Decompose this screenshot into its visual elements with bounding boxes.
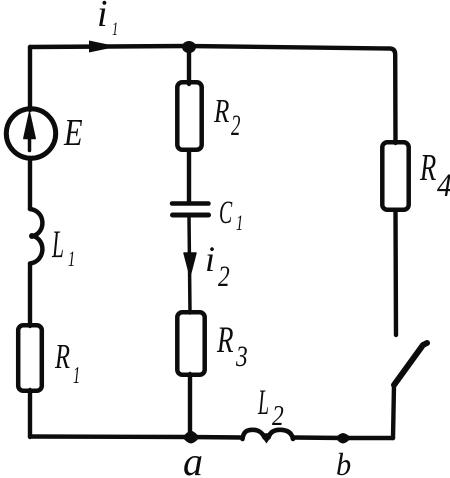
svg-text:1: 1 xyxy=(112,20,118,40)
wire bottom left xyxy=(30,437,242,438)
wire switch fixed contact xyxy=(393,211,398,335)
svg-text:2: 2 xyxy=(231,110,240,142)
inductor L1 xyxy=(30,209,42,264)
wire right riser to switch xyxy=(393,385,394,438)
svg-text:C: C xyxy=(219,194,233,230)
source E xyxy=(6,109,55,158)
capacitor C1 xyxy=(172,201,209,206)
svg-text:R: R xyxy=(216,320,234,361)
svg-text:2: 2 xyxy=(218,259,230,292)
node a xyxy=(183,431,200,444)
svg-text:1: 1 xyxy=(68,247,75,272)
svg-text:4: 4 xyxy=(437,167,450,204)
switch blade xyxy=(394,343,427,385)
node junction top xyxy=(182,41,196,53)
wire R3 to node a xyxy=(188,374,192,437)
wire top horizontal xyxy=(30,46,396,143)
wire left lower xyxy=(28,265,32,326)
inductor L2 xyxy=(243,430,294,439)
svg-text:i: i xyxy=(205,239,215,279)
arrow of source E xyxy=(28,136,32,151)
svg-text:R: R xyxy=(213,92,229,130)
wire bottom right xyxy=(294,435,393,440)
svg-text:1: 1 xyxy=(236,211,243,236)
wire left bottom xyxy=(28,390,32,437)
resistor R1 xyxy=(18,325,42,390)
svg-text:R: R xyxy=(419,148,436,190)
svg-text:L: L xyxy=(257,383,269,423)
wire C1 to R3 with i2 arrow xyxy=(189,216,190,313)
wire left middle xyxy=(28,158,32,209)
resistor R2 xyxy=(177,82,201,149)
svg-text:E: E xyxy=(63,112,82,154)
resistor R3 xyxy=(177,312,204,374)
svg-text:2: 2 xyxy=(272,400,284,431)
svg-text:3: 3 xyxy=(235,339,248,372)
svg-text:R: R xyxy=(54,337,70,376)
node b xyxy=(336,433,352,444)
wire middle branch top xyxy=(187,46,191,84)
svg-text:L: L xyxy=(51,222,64,265)
arrow i1 xyxy=(89,41,118,53)
svg-text:1: 1 xyxy=(73,362,80,389)
svg-text:i: i xyxy=(97,0,108,35)
svg-text:b: b xyxy=(336,446,351,478)
wire left top xyxy=(28,47,32,110)
svg-text:a: a xyxy=(183,439,203,478)
arrow i2 xyxy=(184,253,196,276)
resistor R4 xyxy=(382,142,408,209)
wire R2 to C1 xyxy=(187,150,191,202)
